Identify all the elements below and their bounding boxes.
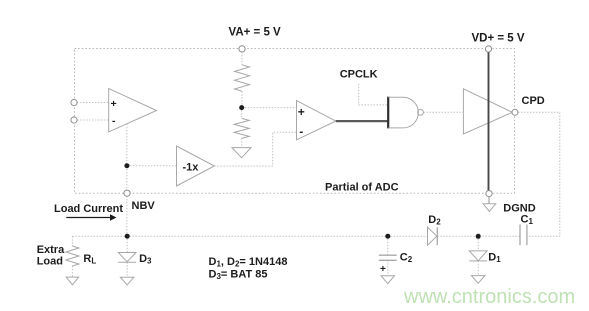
svg-text:+: + <box>298 105 305 119</box>
svg-text:Partial of ADC: Partial of ADC <box>325 182 399 194</box>
node: rail at D1 <box>476 234 481 239</box>
inverter -1x U2 <box>177 146 215 186</box>
ground: D1 <box>471 276 485 284</box>
svg-text:VA+ = 5 V: VA+ = 5 V <box>229 26 282 38</box>
diode D2 <box>428 227 438 245</box>
wire: node to R2 <box>241 110 243 118</box>
arrow: load current direction <box>66 217 110 219</box>
wire: bottom rail left span <box>72 235 427 237</box>
ground: C2 <box>381 276 394 284</box>
ground: D3 <box>120 277 133 285</box>
ground: RL <box>66 277 79 285</box>
wire: RL to ground <box>71 266 73 277</box>
svg-text:www.cntronics.com: www.cntronics.com <box>403 286 575 308</box>
wire: divider node to comparator + input <box>242 107 297 109</box>
wire: D3 cathode to ground <box>126 262 128 277</box>
wire: op-amp output down to junction <box>126 124 128 236</box>
wire: comparator thick output to NAND <box>336 120 388 122</box>
resistor RL (extra load) <box>66 246 79 266</box>
resistor R-bottom of divider <box>234 118 249 138</box>
resistor R-top of divider <box>235 65 250 91</box>
diode D1 <box>469 251 487 261</box>
wire: rail drop into RL <box>71 236 73 246</box>
ground: divider <box>232 148 251 158</box>
node: divider midpoint <box>239 105 244 110</box>
op-amp U1 <box>109 89 157 132</box>
terminal: VD+ <box>485 46 491 52</box>
diode D3 <box>118 253 136 263</box>
wire: R2 to ground <box>241 138 243 147</box>
svg-text:NBV: NBV <box>132 200 156 212</box>
terminal: op-amp + external pin <box>71 99 77 105</box>
wire: -1x output to comparator - input <box>214 132 296 166</box>
wire: CPCLK stub to NAND input <box>359 84 388 105</box>
capacitor C1 <box>520 225 527 246</box>
node: rail at NBV column <box>125 234 130 239</box>
svg-text:+: + <box>111 98 117 110</box>
wire: D1 cathode to ground <box>477 261 479 276</box>
wire: bottom rail D2 cathode to C1 <box>437 235 520 237</box>
wire: C2 to ground <box>387 260 389 275</box>
ground: DGND <box>483 197 496 212</box>
svg-text:VD+ = 5 V: VD+ = 5 V <box>472 32 525 44</box>
node: rail at C2 <box>385 234 390 239</box>
svg-text:Load: Load <box>37 256 63 268</box>
svg-text:-: - <box>112 115 116 127</box>
wire: VA+ stub down to resistor <box>241 52 243 65</box>
dashed ADC boundary box <box>75 49 515 194</box>
svg-text:+: + <box>380 264 386 275</box>
svg-text:D1, D2= 1N4148: D1, D2= 1N4148 <box>209 256 288 269</box>
wire: rail to D3 anode <box>126 239 128 253</box>
wire: rail to D1 anode <box>477 239 479 251</box>
svg-text:-1x: -1x <box>183 162 200 174</box>
buffer U5 <box>463 89 512 134</box>
wire: R1 to divider node <box>241 91 243 105</box>
wire: junction to -1x input <box>127 165 177 167</box>
svg-text:Load Current: Load Current <box>54 203 123 215</box>
svg-text:Extra: Extra <box>37 244 65 256</box>
wire: VD+ thick line down to DGND <box>488 52 490 191</box>
svg-text:CPD: CPD <box>522 95 545 107</box>
capacitor C2 <box>379 255 397 260</box>
terminal: DGND <box>486 191 492 197</box>
terminal: NBV <box>124 190 130 196</box>
wire: op-amp - input <box>77 119 109 121</box>
NAND gate U4 <box>387 97 389 129</box>
terminal: op-amp - external pin <box>71 117 77 123</box>
wire: CPD to right-side drop to C1 <box>518 112 560 236</box>
node: op-amp output junction <box>124 163 129 168</box>
wire: NAND output to buffer input <box>424 111 464 113</box>
wire: rail to C2 <box>387 239 389 256</box>
comparator U3 <box>297 101 336 140</box>
wire: op-amp + input <box>77 102 109 104</box>
svg-text:-: - <box>299 124 303 138</box>
svg-text:CPCLK: CPCLK <box>340 69 378 81</box>
terminal: CPD <box>512 109 518 115</box>
terminal: VA+ <box>239 46 245 52</box>
